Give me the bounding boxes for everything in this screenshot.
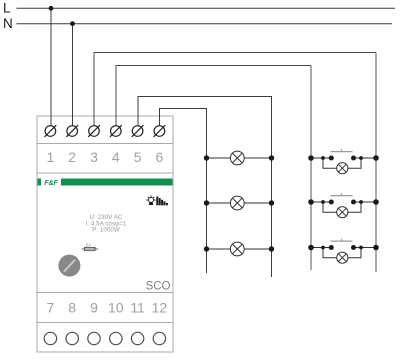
wire L to terminal 1	[50, 8, 52, 126]
lamp row 2	[204, 196, 274, 210]
svg-text:9: 9	[90, 300, 98, 316]
svg-text:1: 1	[47, 149, 55, 165]
svg-text:12: 12	[152, 300, 168, 316]
screw 3	[88, 125, 100, 137]
svg-text:11: 11	[130, 300, 145, 316]
svg-text:4: 4	[112, 149, 120, 165]
knob potentiometer	[58, 255, 80, 277]
svg-text:5A: 5A	[86, 243, 92, 248]
screw 5	[132, 125, 144, 137]
svg-text:N: N	[3, 16, 13, 31]
wire terminal 6 to lamp column left rail	[160, 109, 207, 274]
screw 2	[66, 125, 78, 137]
junction N line	[70, 21, 75, 26]
screw 6	[154, 125, 166, 137]
wire N to terminal 2	[72, 24, 74, 126]
svg-text:7: 7	[47, 300, 55, 316]
device bottom terminal circles	[44, 332, 165, 344]
svg-text:5: 5	[134, 149, 142, 165]
icon bulb	[146, 195, 155, 204]
svg-text:10: 10	[108, 300, 124, 316]
lamp row 3	[204, 242, 274, 256]
illuminated push button row 3	[308, 239, 379, 264]
svg-text:P: 1000W: P: 1000W	[92, 227, 120, 234]
device terminal numbers 1-6	[47, 149, 164, 165]
svg-text:L: L	[3, 1, 11, 16]
device SCO module body	[37, 116, 173, 352]
screw 1	[45, 125, 57, 137]
device terminal numbers 7-12	[47, 300, 168, 316]
svg-text:8: 8	[68, 300, 76, 316]
wire N line	[17, 23, 393, 25]
device F&F logo green band	[38, 179, 173, 188]
wire terminal 4 to button column left rail	[116, 66, 311, 127]
svg-text:6: 6	[156, 149, 164, 165]
icon dimmer ramp	[156, 197, 168, 206]
svg-text:F&F: F&F	[44, 180, 58, 187]
wire terminal 3 to button column right rail	[94, 53, 376, 127]
svg-text:3: 3	[90, 149, 98, 165]
fuse icon with 5A label	[82, 243, 99, 251]
svg-text:SCO: SCO	[146, 281, 171, 293]
wire L line	[17, 7, 396, 9]
screw 4	[110, 125, 122, 137]
wire terminal 5 to lamp column right rail	[138, 97, 272, 278]
device screw terminals 1-6	[45, 125, 166, 137]
device spec text	[86, 214, 127, 234]
junction L line	[49, 6, 54, 11]
illuminated push button row 1	[308, 149, 379, 174]
illuminated push button row 2	[308, 193, 379, 218]
lamp row 1	[204, 151, 274, 165]
svg-text:2: 2	[68, 149, 76, 165]
